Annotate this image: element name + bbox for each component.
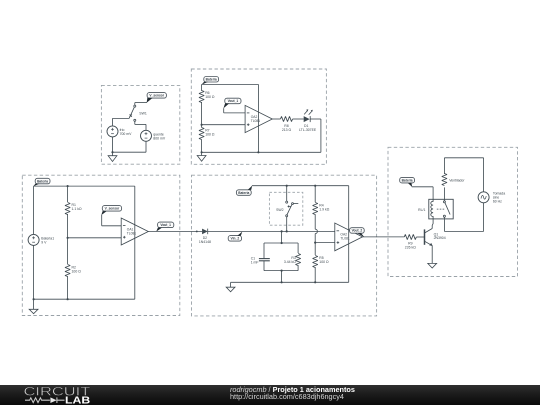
junction dot bbox=[281, 242, 283, 244]
switch SW2 bbox=[276, 201, 298, 217]
svg-text:Vout_2: Vout_2 bbox=[352, 229, 363, 233]
capacitor C1 bbox=[259, 258, 270, 260]
junction dot (diode pin) bbox=[196, 230, 198, 232]
node Vout_1 flag (bottom-left) bbox=[156, 222, 174, 232]
wire ground rail (top-middle) bbox=[202, 151, 321, 153]
wire R2 to bottom rail bbox=[67, 276, 69, 299]
wire SW1 common to frio source bbox=[113, 117, 130, 119]
diode D2 1N4148 bbox=[202, 229, 208, 235]
node Vout_1 flag (top-middle) bbox=[223, 98, 241, 108]
svg-text:V_sensor: V_sensor bbox=[105, 207, 120, 211]
transistor Q1 2N3904 bbox=[425, 229, 433, 246]
junction dot bbox=[281, 281, 283, 283]
wire to R6 bbox=[201, 84, 203, 91]
wire SW2 to main wire bbox=[286, 217, 288, 232]
junction dot bbox=[257, 151, 259, 153]
switch SW2 enclosure (dashed) bbox=[269, 192, 302, 225]
relay RL/1 bbox=[429, 199, 453, 219]
svg-text:3.44 kΩ: 3.44 kΩ bbox=[284, 260, 296, 264]
wire Bateria top rail (bottom-middle) bbox=[252, 185, 349, 187]
wire to C1/R3 pair bbox=[281, 231, 283, 243]
node V_sensor flag (top-left) bbox=[147, 93, 167, 103]
ground (bottom-middle) bbox=[230, 282, 232, 287]
voltage source quente 800mV bbox=[141, 130, 152, 141]
wire R1 top bbox=[67, 186, 69, 202]
wire Bateria rail (top) bbox=[202, 83, 259, 85]
ground (top-left) bbox=[112, 152, 114, 156]
junction dot bbox=[111, 151, 113, 153]
junction dot bbox=[314, 281, 316, 283]
wire D2 to minus input (main signal) bbox=[208, 230, 335, 232]
wire relay switch to Ventilador bbox=[443, 187, 445, 200]
ground (right) bbox=[428, 263, 437, 268]
svg-text:1.9 kΩ: 1.9 kΩ bbox=[319, 207, 329, 211]
node Bateria flag (bottom-middle) bbox=[236, 186, 252, 196]
resistor R4 bbox=[313, 203, 318, 215]
junction dot bbox=[281, 270, 283, 272]
junction dot bbox=[201, 151, 203, 153]
wire R1 to R2 bbox=[67, 214, 69, 264]
svg-text:Bateria: Bateria bbox=[37, 179, 48, 183]
switch SW1 bbox=[129, 105, 147, 121]
junction dot bbox=[286, 230, 288, 232]
wire R5 top lead bbox=[314, 243, 316, 255]
svg-text:Vin_2: Vin_2 bbox=[231, 237, 240, 241]
CircuitLab logo bbox=[22, 385, 102, 405]
ground (top-middle) bbox=[201, 152, 203, 155]
node Bateria flag (top-middle) bbox=[201, 77, 218, 85]
credit text bbox=[230, 386, 355, 402]
junction dot bbox=[314, 185, 316, 187]
resistor R1 bbox=[65, 203, 70, 215]
wire quente to bottom rail bbox=[145, 141, 147, 152]
svg-text:700 mV: 700 mV bbox=[120, 132, 133, 136]
op-amp OA2 TL081 (top-middle) bbox=[245, 105, 272, 132]
wire bottom rail (top-left) bbox=[113, 151, 147, 153]
node Bateria flag (right) bbox=[400, 177, 415, 187]
wire plus tap to op-amp bbox=[315, 242, 335, 244]
junction dot bbox=[67, 298, 69, 300]
svg-text:RL/1: RL/1 bbox=[418, 208, 425, 212]
junction dot bbox=[67, 185, 69, 187]
op-amp OA1 TL081 (bottom-left) bbox=[121, 218, 148, 245]
module box: relay driver (right) bbox=[388, 147, 518, 276]
wire bottom rail (bottom-left) bbox=[34, 298, 135, 300]
wire C1 top lead bbox=[263, 243, 265, 258]
module box: LED comparator (top-middle) bbox=[191, 69, 326, 164]
module box: filter comparator (bottom-middle) bbox=[192, 175, 377, 316]
svg-text:800 mV: 800 mV bbox=[153, 136, 166, 140]
resistor R7 bbox=[199, 128, 204, 140]
svg-text:100 Ω: 100 Ω bbox=[319, 260, 329, 264]
node Bateria flag (bottom-left) bbox=[33, 178, 50, 186]
wire ground rail (bottom-middle) bbox=[231, 281, 349, 283]
resistor R3 bbox=[296, 254, 301, 266]
wire R6 to R7 bbox=[201, 102, 203, 128]
svg-text:V_sensor: V_sensor bbox=[149, 94, 164, 98]
wire base to R9 bbox=[416, 236, 424, 238]
svg-text:Bateria: Bateria bbox=[206, 78, 217, 82]
wire R3 top lead bbox=[297, 243, 299, 253]
wire OA2 output bbox=[363, 236, 405, 238]
wire Q1 emitter to ground bbox=[431, 246, 433, 264]
AC source Tomada sine 60Hz bbox=[478, 192, 489, 203]
svg-text:226 kΩ: 226 kΩ bbox=[405, 246, 416, 250]
node Vin_2 flag bbox=[228, 232, 242, 242]
svg-text:9 V: 9 V bbox=[41, 240, 47, 244]
op-amp OA2 TL081 (bottom-middle) bbox=[335, 223, 363, 251]
junction dot (plus input tap) bbox=[201, 124, 203, 126]
voltage source frio 700mV bbox=[107, 126, 118, 137]
wire pair to ground rail bbox=[281, 271, 283, 283]
resistor R6 bbox=[199, 91, 204, 103]
wire C1 bottom lead bbox=[263, 261, 265, 271]
wire C1-R3 top link bbox=[264, 242, 298, 244]
node V_sensor flag (bottom-left) bbox=[101, 206, 121, 216]
svg-text:SW1: SW1 bbox=[139, 111, 147, 115]
wire Ventilador to Tomada bbox=[443, 158, 445, 174]
resistor Ventilador bbox=[442, 174, 447, 186]
wire R3 bottom lead bbox=[297, 265, 299, 271]
module box: sensor selector (top-left) bbox=[101, 85, 179, 164]
wire to Bateria1 source bbox=[33, 186, 35, 234]
wire op-amp output to R8 bbox=[272, 118, 280, 120]
wire frio to bottom rail bbox=[112, 137, 114, 152]
resistor R2 bbox=[65, 265, 70, 277]
svg-text:2N3904: 2N3904 bbox=[434, 236, 446, 240]
wire C1-R3 bottom link bbox=[264, 270, 298, 272]
wire R5 to ground rail bbox=[314, 267, 316, 282]
svg-text:100 Ω: 100 Ω bbox=[72, 269, 82, 273]
wire D1 to right rail bbox=[310, 118, 321, 120]
junction dot bbox=[314, 242, 316, 244]
junction dot (divider tap) bbox=[67, 237, 69, 239]
wire hop to plus tap bbox=[314, 234, 316, 243]
svg-text:213 Ω: 213 Ω bbox=[282, 128, 292, 132]
svg-text:1 mF: 1 mF bbox=[251, 260, 259, 264]
wire R4 to hop bbox=[314, 214, 316, 229]
node Vout_2 flag bbox=[350, 228, 365, 238]
svg-text:Vout_1: Vout_1 bbox=[160, 223, 171, 227]
module box: sensor amplifier (bottom-left) bbox=[22, 175, 180, 315]
svg-text:LAB: LAB bbox=[65, 395, 90, 405]
svg-text:SW2: SW2 bbox=[276, 208, 284, 212]
wire Bateria top rail bbox=[34, 185, 135, 187]
svg-text:100 Ω: 100 Ω bbox=[205, 95, 215, 99]
svg-text:Ventilador: Ventilador bbox=[449, 178, 465, 182]
wire SW1 lower throw to quente source bbox=[134, 121, 136, 124]
svg-text:1.1 kΩ: 1.1 kΩ bbox=[72, 207, 82, 211]
wire divider tap to plus input bbox=[68, 237, 122, 239]
wire OA1 output to D2 bbox=[148, 230, 202, 232]
LED D1 bbox=[304, 109, 313, 122]
op-amp supply rail wire bbox=[257, 84, 259, 152]
wire Vout_1 to minus input bbox=[223, 108, 225, 113]
junction dot bbox=[286, 185, 288, 187]
wire to op-amp plus input bbox=[202, 124, 246, 126]
junction dot bbox=[281, 230, 283, 232]
wire flag to SW1 throw bbox=[135, 102, 147, 104]
resistor R5 bbox=[313, 256, 318, 268]
wire to SW2 bbox=[286, 186, 288, 201]
svg-text:Bateria: Bateria bbox=[402, 178, 413, 182]
svg-text:Vout_1: Vout_1 bbox=[228, 99, 239, 103]
wire R4 top lead bbox=[314, 186, 316, 203]
voltage source Bateria1 9V bbox=[28, 234, 39, 245]
wire Bateria to relay coil bbox=[412, 186, 433, 188]
op-amp supply rail wire bbox=[134, 186, 136, 299]
svg-text:100 Ω: 100 Ω bbox=[205, 132, 215, 136]
wire Tomada to relay contact bbox=[483, 203, 485, 232]
wire Bateria1 to bottom rail bbox=[33, 245, 35, 299]
ground (bottom-left) bbox=[33, 299, 35, 309]
resistor R9 bbox=[404, 234, 416, 239]
op-amp supply rail wire bbox=[348, 186, 350, 283]
wire V_sensor to minus input bbox=[101, 215, 103, 226]
svg-text:Bateria: Bateria bbox=[238, 191, 249, 195]
wire hop over signal bbox=[315, 229, 317, 233]
svg-text:LTL-307EE: LTL-307EE bbox=[299, 128, 317, 132]
junction dot bbox=[33, 298, 35, 300]
svg-text:1N4148: 1N4148 bbox=[199, 240, 211, 244]
wire relay coil to Q1 collector bbox=[431, 219, 434, 229]
wire R7 to ground rail bbox=[201, 140, 203, 153]
svg-text:60 Hz: 60 Hz bbox=[493, 199, 502, 203]
resistor R8 bbox=[281, 116, 293, 121]
wire R8 to D1 bbox=[293, 118, 304, 120]
